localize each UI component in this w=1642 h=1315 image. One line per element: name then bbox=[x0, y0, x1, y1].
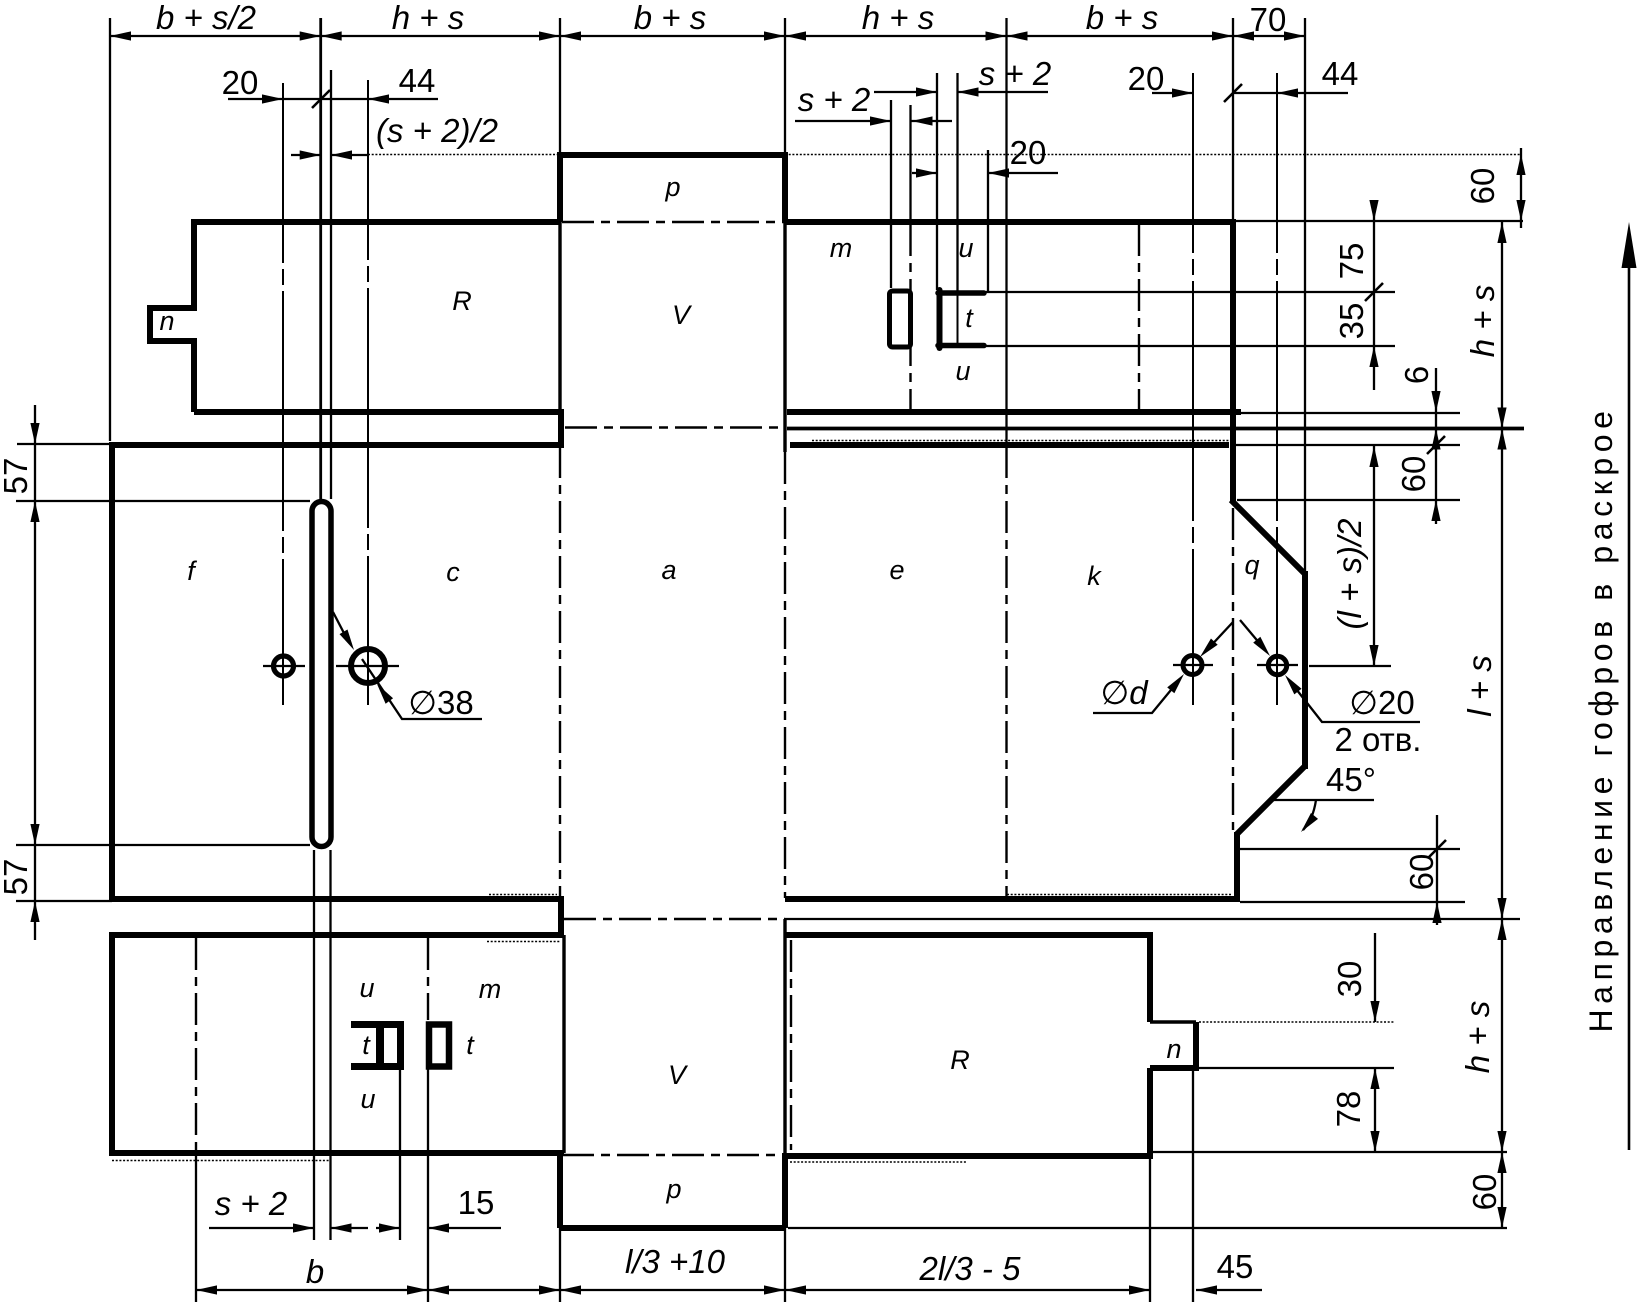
svg-text:h + s: h + s bbox=[1464, 285, 1501, 357]
cut connector at x=561 bottom bbox=[558, 896, 564, 938]
extension x=1193 bottom bbox=[1192, 1069, 1194, 1302]
dim chain right x=1502 bbox=[1501, 222, 1503, 1228]
extension y=666 (hole level) bbox=[1309, 665, 1391, 667]
fold V/p bottom at y=1155 bbox=[562, 1154, 785, 1156]
panel m (top-right) top edge bbox=[785, 219, 1236, 225]
serration below bottom-right flap bbox=[790, 1161, 967, 1163]
serration above body bottom edge right bbox=[1007, 894, 1232, 896]
svg-text:35: 35 bbox=[1333, 303, 1370, 340]
dim 60 lower right x=1437 bbox=[1436, 815, 1438, 925]
fold V/a at y=427.5 bbox=[565, 426, 785, 428]
extension x=957.5 bbox=[956, 73, 958, 292]
bottom-left flap bottom edge bbox=[112, 1150, 564, 1156]
fold p/V top at y=222 bbox=[562, 221, 785, 223]
centre line hole 3 bbox=[1192, 73, 1194, 705]
svg-text:2 отв.: 2 отв. bbox=[1335, 721, 1422, 758]
body top edge (right half, serrated) bbox=[790, 442, 1229, 448]
extension x=1305 bbox=[1304, 18, 1306, 573]
dotted extension of tab n top edge bbox=[1199, 1021, 1394, 1023]
svg-text:b + s: b + s bbox=[634, 0, 706, 36]
extension x=1233 top bbox=[1232, 18, 1234, 219]
svg-text:u: u bbox=[359, 973, 374, 1003]
svg-text:∅d: ∅d bbox=[1100, 674, 1149, 711]
svg-text:30: 30 bbox=[1331, 961, 1368, 998]
serration above body top edge right bbox=[812, 440, 1229, 442]
svg-text:s + 2: s + 2 bbox=[215, 1185, 287, 1222]
dotted line y=154.5 left of p bbox=[368, 154, 560, 156]
svg-text:70: 70 bbox=[1250, 1, 1287, 38]
dim (s+2)/2 y=155 bbox=[291, 154, 368, 156]
bottom-right flap R bottom edge bbox=[785, 1153, 1153, 1159]
extension y=346 (tab t bottom) bbox=[986, 345, 1395, 347]
fold k/q at x=1233 bbox=[1232, 508, 1234, 830]
svg-text:∅20: ∅20 bbox=[1349, 684, 1414, 721]
tab n (bottom-right) top edge bbox=[1150, 1020, 1196, 1023]
extension y=845 left bbox=[16, 844, 310, 846]
svg-text:78: 78 bbox=[1330, 1091, 1367, 1128]
extension y=849 (q chamfer lower corner) bbox=[1237, 848, 1460, 850]
tab n (bottom-right) right and bottom edges bbox=[1150, 1022, 1199, 1068]
extension y=1068 (tab n bottom) bbox=[1199, 1067, 1394, 1069]
extension x=891 (slot u) bbox=[890, 100, 892, 288]
tab t (bottom-left flap) bbox=[351, 1021, 404, 1070]
extension y=221 right bbox=[1236, 220, 1523, 222]
svg-text:c: c bbox=[446, 557, 460, 587]
q panel chamfer bottom bbox=[1237, 766, 1305, 834]
dim s+2 (no.1) y=121 bbox=[795, 120, 952, 122]
dim 6 x=1436 bbox=[1435, 368, 1437, 445]
svg-text:n: n bbox=[159, 306, 174, 336]
fold in m panel at x=1139 bbox=[1138, 224, 1140, 410]
q panel right edge bbox=[1302, 571, 1308, 769]
extension x=320.7 bbox=[319, 18, 322, 499]
svg-text:60: 60 bbox=[1464, 168, 1501, 205]
svg-text:R: R bbox=[950, 1045, 970, 1075]
hole 4 cross tick bbox=[1257, 664, 1298, 666]
dim 57 lower left x=35 bbox=[30, 824, 39, 845]
svg-text:(l + s)/2: (l + s)/2 bbox=[1331, 519, 1368, 630]
svg-text:h + s: h + s bbox=[1459, 1001, 1496, 1073]
extension x=314 bottom bbox=[313, 850, 315, 1240]
extension y=919 right bbox=[785, 918, 1520, 920]
bottom-left flap left edge bbox=[109, 932, 115, 1156]
flap R bottom edge bbox=[194, 409, 561, 415]
bottom-left flap top edge bbox=[112, 932, 564, 938]
extension x=428 bottom bbox=[427, 1068, 429, 1302]
dim 30 right x=1375 bbox=[1374, 933, 1376, 1022]
dim 20 / 44 top-right y=93 bbox=[1152, 92, 1348, 94]
svg-text:e: e bbox=[889, 555, 904, 585]
svg-text:75: 75 bbox=[1333, 243, 1370, 280]
extension x=196 bottom bbox=[195, 1153, 197, 1302]
fold in bottom-left flap at x=428 bbox=[427, 938, 429, 1020]
body bottom edge (left half) bbox=[112, 896, 564, 902]
body bottom edge (right half) bbox=[785, 896, 1240, 902]
svg-text:V: V bbox=[668, 1060, 689, 1090]
svg-text:60: 60 bbox=[1403, 854, 1440, 891]
q panel left upper vertical bbox=[1230, 409, 1236, 502]
extension y=901 left bbox=[16, 900, 112, 902]
centre line hole 4 bbox=[1276, 73, 1278, 705]
fold a/e at x=785 bbox=[784, 452, 786, 898]
svg-text:l + s: l + s bbox=[1461, 655, 1498, 716]
fold e/k at x=1006.5 bbox=[1005, 446, 1007, 898]
dim 20 (no.3) y=173 bbox=[912, 172, 1058, 174]
cut connector at x=561 bbox=[558, 409, 564, 448]
centre line hole 2 bbox=[367, 80, 369, 705]
dotted line y=154.5 right of p bbox=[785, 154, 1521, 156]
svg-text:V: V bbox=[672, 300, 693, 330]
flap p (bottom) outline bbox=[560, 1150, 785, 1228]
svg-text:R: R bbox=[452, 286, 472, 316]
leader arrow from slot to hole 2 bbox=[333, 612, 346, 637]
extension x=331 bbox=[330, 70, 332, 499]
leader arrow from fold to hole 3 bbox=[1206, 622, 1233, 651]
dim 15 bottom y=1228 bbox=[376, 1227, 501, 1229]
svg-text:m: m bbox=[479, 974, 502, 1004]
svg-text:Направление гофров в раскрое: Направление гофров в раскрое bbox=[1583, 405, 1619, 1032]
svg-text:m: m bbox=[830, 233, 853, 263]
extension x=910.5 bbox=[909, 105, 911, 224]
leader d38 label bbox=[362, 659, 482, 719]
svg-text:n: n bbox=[1166, 1034, 1181, 1064]
bottom-right flap R top edge bbox=[785, 932, 1150, 938]
dim (l+s)/2 x=1374 bbox=[1373, 446, 1375, 666]
svg-text:l/3 +10: l/3 +10 bbox=[625, 1243, 726, 1280]
svg-text:45°: 45° bbox=[1326, 761, 1376, 798]
panel f left edge bbox=[109, 442, 115, 902]
svg-text:h + s: h + s bbox=[862, 0, 934, 36]
dim 60 top right x=1521 bbox=[1520, 148, 1522, 228]
dim 78 right x=1375 bbox=[1374, 1068, 1376, 1152]
leader d20 label bbox=[1289, 680, 1420, 722]
cut line V/R bottom at x=785 bbox=[783, 919, 786, 1153]
flap p (top) outline bbox=[560, 152, 785, 222]
svg-text:u: u bbox=[958, 233, 973, 263]
extension x=988 bbox=[987, 150, 989, 292]
dim chain top y=36 bbox=[110, 35, 1305, 37]
slot u (bottom-left flap) bbox=[429, 1025, 449, 1067]
bottom-right flap R right edge lower bbox=[1147, 1068, 1153, 1159]
panel m right edge bbox=[1230, 219, 1236, 415]
svg-text:b + s/2: b + s/2 bbox=[156, 0, 256, 36]
extension x=330.5 bottom bbox=[329, 850, 331, 1240]
svg-text:h + s: h + s bbox=[392, 0, 464, 36]
svg-text:a: a bbox=[661, 555, 676, 585]
extension y=413 right bbox=[1241, 412, 1460, 414]
centre line hole 1 bbox=[282, 83, 284, 705]
extension y=1152 right bbox=[1153, 1151, 1507, 1153]
svg-text:p: p bbox=[664, 172, 680, 202]
svg-text:s + 2: s + 2 bbox=[979, 55, 1051, 92]
extension x=560 top bbox=[559, 18, 561, 152]
hole 3 cross tick bbox=[1173, 664, 1213, 666]
dim s+2 (no.2) y=92 bbox=[874, 91, 1048, 93]
dim chain bottom y=1290 bbox=[196, 1289, 1262, 1291]
svg-text:57: 57 bbox=[0, 859, 34, 896]
svg-text:b + s: b + s bbox=[1086, 0, 1158, 36]
leader d label bbox=[1093, 679, 1180, 713]
q panel left lower vertical bbox=[1234, 832, 1240, 902]
leader arrow from fold to hole 4 bbox=[1240, 620, 1266, 651]
extension y=902 right bbox=[1240, 901, 1465, 903]
serration below bottom-left flap top edge bbox=[487, 941, 561, 943]
body top edge (left half) bbox=[110, 442, 561, 448]
hole 3 (d) bbox=[1183, 656, 1202, 675]
serration above body bottom edge left bbox=[489, 894, 557, 896]
dim 20 / 44 top-left y=99 bbox=[228, 98, 438, 100]
svg-text:20: 20 bbox=[1128, 60, 1165, 97]
fold in bottom-right flap at x=791 bbox=[790, 940, 792, 1150]
hole 2 (d38) bbox=[351, 649, 385, 683]
svg-text:20: 20 bbox=[1010, 134, 1047, 171]
extension x=1006.5 top bbox=[1005, 18, 1007, 446]
hole 4 (d20) bbox=[1268, 656, 1286, 674]
svg-text:b: b bbox=[306, 1253, 324, 1290]
bottom-right flap R right edge upper bbox=[1147, 932, 1153, 1022]
svg-text:p: p bbox=[665, 1174, 681, 1204]
serration below bottom-left flap bbox=[112, 1160, 330, 1162]
svg-text:6: 6 bbox=[1398, 366, 1435, 384]
svg-text:44: 44 bbox=[399, 62, 436, 99]
hole 2 cross tick bbox=[336, 665, 399, 667]
extension x=937 (tab t) bbox=[936, 73, 938, 290]
dim s+2 bottom y=1228 bbox=[209, 1227, 368, 1229]
dim 57 upper left x=35 bbox=[34, 405, 36, 940]
fold V bottom at y=919 bbox=[564, 918, 785, 920]
q panel chamfer top bbox=[1231, 500, 1305, 574]
cut line bottom-left flap / V at x=564 bbox=[562, 935, 565, 1153]
svg-text:s + 2: s + 2 bbox=[798, 81, 870, 118]
svg-text:15: 15 bbox=[458, 1184, 495, 1221]
extension x=1150 bottom bbox=[1149, 1159, 1151, 1302]
svg-text:u: u bbox=[360, 1084, 375, 1114]
svg-text:k: k bbox=[1087, 561, 1102, 591]
extension y=292 (tab t top) bbox=[986, 291, 1395, 293]
extension y=445 right bbox=[1232, 444, 1460, 446]
fold c/a at x=560 bbox=[559, 446, 561, 898]
extension x=400 bottom bbox=[399, 1070, 401, 1240]
svg-text:2l/3 - 5: 2l/3 - 5 bbox=[919, 1250, 1022, 1287]
flap R left edge upper bbox=[191, 219, 197, 308]
svg-text:u: u bbox=[955, 356, 970, 386]
dim 60 upper right x=1436 bbox=[1435, 445, 1437, 524]
dim 75 / 35 right x=1374 bbox=[1373, 203, 1375, 390]
svg-text:q: q bbox=[1244, 550, 1259, 580]
extension y=500 (q chamfer corner) bbox=[1237, 499, 1460, 501]
extension x=110 bbox=[109, 18, 111, 441]
hole 1 cross tick bbox=[263, 665, 305, 667]
fold in bottom-left flap at x=196 bbox=[195, 938, 197, 1150]
flap R left edge lower bbox=[191, 341, 197, 412]
long cut line y=428.5 (right band) bbox=[787, 427, 1524, 431]
angle 45 deg note bbox=[1272, 800, 1374, 830]
svg-text:60: 60 bbox=[1395, 456, 1432, 493]
svg-text:(s + 2)/2: (s + 2)/2 bbox=[376, 112, 498, 149]
slot u (top m panel) bbox=[890, 291, 911, 347]
hole 1 (small, left) bbox=[274, 656, 294, 676]
extension x=785 top bbox=[784, 18, 786, 152]
cut line R/V at x=560 bbox=[558, 222, 561, 412]
svg-text:45: 45 bbox=[1217, 1248, 1254, 1285]
cut line V/m at x=785 bbox=[783, 222, 786, 452]
tab t (top m panel) bbox=[938, 290, 984, 348]
svg-text:57: 57 bbox=[0, 458, 34, 495]
extension y=1228 right bbox=[788, 1227, 1507, 1229]
flap R (top-left) top edge bbox=[194, 219, 560, 225]
extension y=444 left bbox=[17, 443, 110, 445]
svg-text:20: 20 bbox=[222, 64, 259, 101]
svg-text:∅38: ∅38 bbox=[408, 684, 473, 721]
svg-text:60: 60 bbox=[1466, 1174, 1503, 1211]
tab n (top-left) outline bbox=[150, 308, 197, 341]
panel m bottom edge bbox=[787, 409, 1241, 415]
extension x=785 bottom bbox=[784, 1228, 786, 1302]
handle slot between f and c bbox=[312, 502, 331, 847]
fold in m panel at x=910.5 bbox=[909, 224, 911, 410]
extension x=560 bottom bbox=[559, 1228, 561, 1302]
svg-text:44: 44 bbox=[1322, 55, 1359, 92]
extension y=501 left bbox=[16, 500, 310, 502]
